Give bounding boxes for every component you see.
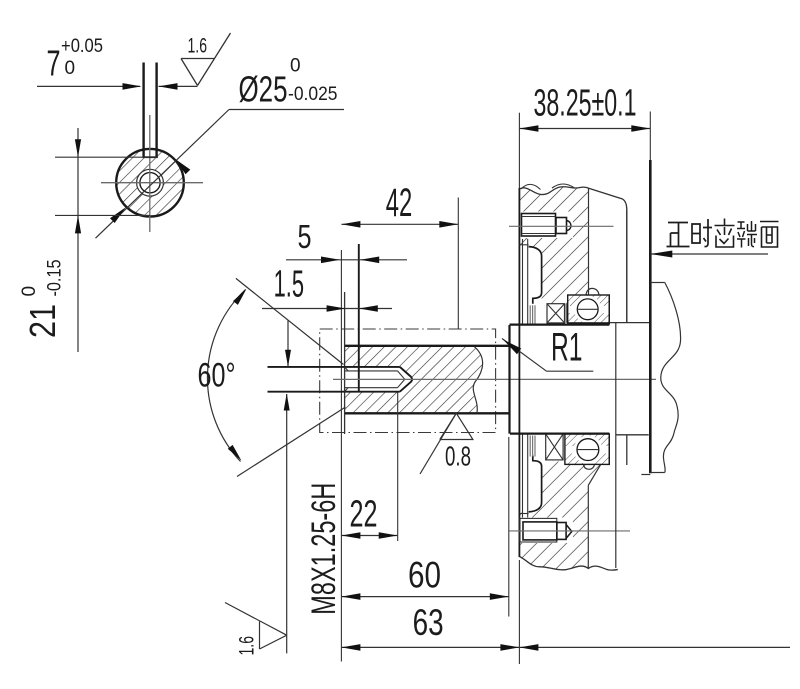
dimension 42 right extension line bbox=[457, 198, 459, 330]
dimension 60 line bbox=[341, 596, 508, 598]
dimension 22 arrows bbox=[341, 532, 360, 539]
upper bolt centre line bbox=[509, 225, 614, 227]
svg-text:22: 22 bbox=[350, 494, 378, 536]
upper bearing ball seam line bbox=[577, 308, 598, 310]
shaft end face line bbox=[340, 250, 342, 662]
60 degree arc upper arrow bbox=[233, 289, 247, 305]
phantom chain-line rectangle around shaft bbox=[320, 329, 496, 433]
dimension 60 right extension line bbox=[508, 437, 510, 617]
upper seal journal grey band bbox=[529, 305, 531, 323]
svg-text:Ø25: Ø25 bbox=[239, 69, 288, 110]
tapped hole thread bottom thin line bbox=[345, 387, 398, 389]
svg-text:7: 7 bbox=[47, 43, 61, 84]
end view thread minor circle bbox=[140, 173, 160, 193]
R1 underline bbox=[547, 370, 594, 372]
upper retainer lip profile bbox=[529, 247, 542, 304]
tapped hole mouth chamfer marks bbox=[345, 367, 348, 392]
dimension 7 right arrow bbox=[159, 83, 178, 90]
gear rim top edge bbox=[650, 282, 665, 284]
dimension 38.25 left extension line bbox=[518, 113, 520, 188]
lower bearing race hatch bbox=[565, 434, 609, 465]
dimension 38.25 line bbox=[519, 128, 650, 130]
housing left face line bbox=[518, 188, 520, 557]
60 degree arc bbox=[207, 290, 245, 462]
lower seal retainer verticals bbox=[522, 434, 524, 518]
0.8 leader line bbox=[420, 413, 456, 474]
chinese label CHI bbox=[715, 219, 735, 248]
Ø25 leader underline bbox=[229, 109, 344, 111]
svg-text:5: 5 bbox=[298, 218, 312, 255]
housing upper section cut edge bbox=[588, 189, 590, 296]
upper bolt rounded tip bbox=[567, 221, 572, 231]
dimension 1.5 arrows bbox=[327, 305, 346, 312]
gear bore upper vertical bbox=[626, 210, 628, 322]
upper bearing box bbox=[568, 295, 610, 323]
chinese label MIAN bbox=[760, 222, 779, 248]
svg-text:R1: R1 bbox=[551, 326, 583, 370]
end view tapped hole white core bbox=[137, 169, 164, 196]
upper bearing race hatch bbox=[568, 295, 610, 323]
surface finish 0.8 symbol under shaft bbox=[440, 413, 473, 439]
lower bolt cone tip bbox=[566, 525, 572, 539]
dimension 21 vertical line bbox=[77, 128, 79, 352]
svg-text:1.5: 1.5 bbox=[274, 264, 304, 306]
svg-text:M8X1.25-6H: M8X1.25-6H bbox=[305, 483, 343, 615]
shaft chamfer line bbox=[344, 292, 346, 434]
dimension 21 bottom extension line bbox=[55, 214, 150, 216]
housing lower hatched section bbox=[519, 462, 600, 570]
60 degree lower leg line bbox=[237, 407, 346, 477]
svg-text:-0.15: -0.15 bbox=[45, 260, 66, 297]
Ø25 diagonal dimension line bbox=[96, 110, 230, 239]
dimension 22 right extension line bbox=[397, 393, 399, 542]
svg-text:38.25±0.1: 38.25±0.1 bbox=[534, 83, 637, 125]
shaft bottom edge bbox=[345, 412, 510, 414]
housing lower bolt white pocket bbox=[519, 518, 573, 544]
lower bolt washer bbox=[520, 518, 557, 542]
lower bearing box bbox=[565, 434, 609, 465]
shaft hatched section fill bbox=[345, 347, 483, 413]
hub right short edge bottom bbox=[608, 434, 610, 465]
svg-text:1.6: 1.6 bbox=[188, 35, 208, 58]
svg-text:-0.025: -0.025 bbox=[288, 84, 338, 105]
thread start vertical line bbox=[358, 244, 360, 392]
dimension 42 arrows bbox=[341, 221, 360, 228]
upper seal retainer verticals bbox=[522, 239, 524, 325]
dimension 38.25 right extension line bbox=[649, 112, 651, 259]
dimension 60 arrows bbox=[341, 593, 360, 600]
end view vertical centre line bbox=[149, 115, 151, 232]
dimension 1.5 line bbox=[262, 308, 392, 310]
end view horizontal centre line bbox=[101, 182, 203, 184]
shaft tapped hole white cutout bbox=[345, 366, 413, 392]
end view thread major circle bbox=[137, 169, 164, 196]
Ø25 upper arrow bbox=[175, 159, 191, 175]
60 degree arc lower arrow bbox=[228, 445, 242, 461]
housing top scallop arc 2 bbox=[552, 184, 575, 188]
tapped hole thread top thin line bbox=[345, 370, 398, 372]
dimension 21 top arrow bbox=[75, 139, 81, 157]
hub left face bbox=[508, 325, 510, 434]
svg-text:60°: 60° bbox=[198, 357, 236, 395]
dimension 21 top extension line bbox=[55, 156, 158, 158]
svg-text:0: 0 bbox=[19, 286, 40, 297]
end view outer circle outline bbox=[116, 149, 184, 217]
hub bottom edge bbox=[510, 433, 609, 435]
timing gear end face line bbox=[649, 160, 652, 473]
drill point inner chamfer bbox=[398, 371, 405, 388]
dimension 7 line left part bbox=[37, 85, 140, 87]
drill point cone bbox=[400, 367, 412, 392]
svg-text:60: 60 bbox=[408, 555, 441, 596]
svg-text:+0.05: +0.05 bbox=[61, 36, 103, 57]
lower bearing ball bbox=[577, 439, 599, 461]
dimension 38.25 arrows bbox=[519, 125, 538, 132]
lower bearing ball seam line bbox=[577, 449, 599, 451]
svg-text:63: 63 bbox=[413, 602, 444, 643]
end view shaft section hatched circle bbox=[116, 149, 184, 217]
wavy break line on shaft bbox=[473, 347, 482, 413]
dimension 42 line bbox=[341, 223, 458, 225]
timing gear end face label arrow bbox=[650, 251, 672, 258]
keyway slot right line bbox=[155, 63, 157, 158]
dimension 63 arrows bbox=[341, 644, 360, 651]
keyway slot left line bbox=[142, 63, 144, 158]
upper bolt cap bbox=[556, 218, 567, 234]
dimension 7 left arrow bbox=[123, 83, 142, 90]
gear rim bottom edge right bbox=[650, 472, 665, 474]
lower retainer lip profile bbox=[529, 456, 542, 512]
svg-text:0.8: 0.8 bbox=[445, 441, 471, 472]
lower bolt cap bbox=[557, 523, 566, 540]
R1 leader arrow bbox=[503, 340, 521, 355]
svg-text:0: 0 bbox=[290, 56, 301, 77]
dimension 5 line bbox=[286, 259, 407, 261]
svg-text:21: 21 bbox=[22, 304, 63, 338]
tapped hole top line bbox=[268, 366, 400, 368]
60 degree upper leg line bbox=[236, 278, 344, 364]
lower bearing outer race dome bbox=[583, 464, 594, 469]
housing top scallop arc 1 bbox=[521, 184, 541, 189]
surface finish 1.6 rotated symbol at M8 leader bbox=[225, 603, 287, 650]
svg-text:0: 0 bbox=[65, 58, 76, 79]
upper oil seal box bbox=[547, 304, 565, 323]
lower bolt centre line bbox=[509, 530, 630, 532]
dimension 5 arrows bbox=[321, 257, 340, 264]
chinese label SHI bbox=[692, 219, 712, 247]
keyway bottom line bbox=[143, 156, 158, 158]
housing upper hatched section bbox=[519, 187, 588, 304]
upper bearing left gap line bbox=[565, 304, 567, 323]
gear teeth wavy break line bbox=[661, 283, 681, 473]
tapped hole bottom line bbox=[268, 391, 400, 393]
housing lower section cut edge bbox=[587, 485, 589, 568]
dimension 63 right extension line bbox=[518, 560, 520, 664]
gear rim bottom stub left bbox=[641, 474, 650, 476]
housing lower bore chamfer line bbox=[588, 464, 600, 485]
dimension 21 bottom arrow bbox=[75, 215, 81, 233]
gear bore lower vertical bbox=[626, 435, 628, 465]
lower seal journal grey band bbox=[529, 436, 531, 457]
shaft centre line bbox=[333, 378, 656, 380]
gear hub block left edge bbox=[615, 323, 617, 568]
lower oil seal box bbox=[546, 434, 563, 460]
timing gear end face label leader underline bbox=[650, 253, 768, 255]
upper bearing ball bbox=[577, 299, 598, 320]
dimension 7 line right part bbox=[159, 85, 198, 87]
hub top edge bbox=[510, 324, 610, 326]
Ø25 lower arrow bbox=[110, 207, 126, 223]
hub right short edge top bbox=[608, 295, 610, 325]
gear hub block top edge bbox=[609, 322, 649, 324]
M8 leader upper segment with down arrow bbox=[287, 321, 289, 367]
chinese label ZHENG bbox=[667, 223, 690, 247]
lower retainer step line bbox=[519, 513, 528, 515]
upper bearing outer race dome bbox=[586, 288, 599, 295]
chinese label DUAN bbox=[737, 221, 757, 248]
shaft top edge bbox=[345, 345, 510, 347]
R1 leader line bbox=[502, 339, 547, 372]
svg-text:42: 42 bbox=[386, 181, 413, 225]
end view keyway slot white cutout bbox=[144, 140, 157, 157]
M8 leader lower segment with up arrow bbox=[286, 394, 288, 653]
gear hub block bottom edge bbox=[616, 434, 649, 436]
lower bolt body bbox=[523, 522, 557, 540]
upper bolt washer bbox=[522, 214, 556, 237]
housing top wavy break outline bbox=[519, 187, 626, 322]
upper retainer step line bbox=[519, 244, 528, 246]
dimension 63 line bbox=[341, 646, 790, 648]
housing upper bolt white pocket bbox=[519, 212, 573, 239]
svg-text:1.6: 1.6 bbox=[236, 636, 259, 656]
housing bottom wavy break outline bbox=[519, 557, 617, 571]
dimension 22 line bbox=[341, 535, 397, 537]
